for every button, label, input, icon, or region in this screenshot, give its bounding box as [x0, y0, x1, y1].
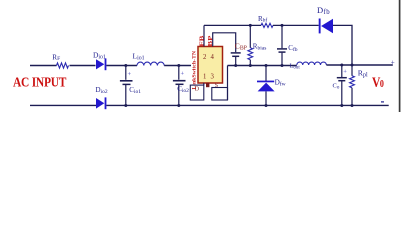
node junction feedback Rpl — [351, 64, 354, 67]
svg-text:Lout: Lout — [290, 63, 301, 71]
svg-text:Cio2: Cio2 — [177, 85, 189, 94]
node junction Cio1 bottom — [124, 104, 127, 107]
svg-text:+: + — [181, 71, 185, 78]
svg-text:D: D — [195, 87, 200, 93]
wire BP pin loop — [213, 33, 236, 52]
svg-text:CBP: CBP — [235, 42, 247, 52]
wire bottom input rail — [30, 104, 96, 106]
diode Dio1 — [96, 58, 106, 70]
svg-text:+: + — [343, 69, 347, 76]
wire top rail Dfb to output corner — [333, 25, 352, 65]
capacitor CBP — [231, 53, 241, 66]
node output minus terminal — [381, 101, 384, 103]
diode Dfw — [257, 66, 275, 106]
inductor Lout — [297, 62, 327, 65]
svg-text:Rbias: Rbias — [253, 43, 267, 52]
node junction Cfb top — [281, 24, 284, 27]
node junction Cio2 bottom — [177, 104, 180, 107]
resistor Rpl — [350, 65, 355, 106]
node junction Dfw top — [265, 64, 268, 67]
wire top rail Rbf to Dfb — [273, 24, 319, 26]
diode Dio2 — [96, 97, 106, 109]
capacitor Cio2 — [173, 66, 186, 106]
svg-text:Cio1: Cio1 — [129, 86, 141, 95]
svg-text:+: + — [391, 58, 395, 66]
wire top rail RF to Dio1 — [70, 65, 96, 67]
resistor Rbias — [248, 25, 253, 65]
svg-text:2: 2 — [203, 54, 207, 61]
svg-text:Rbf: Rbf — [258, 15, 267, 24]
wire switch node rail — [228, 65, 297, 67]
svg-text:Lio1: Lio1 — [133, 52, 145, 62]
svg-text:4: 4 — [211, 54, 215, 61]
svg-text:Cfb: Cfb — [288, 44, 298, 53]
wire top rail Dio1 to Lio1 — [106, 65, 137, 67]
svg-text:S: S — [215, 83, 218, 89]
wire top rail Lio1 to IC — [164, 65, 191, 67]
node junction Dfw bottom — [265, 104, 268, 107]
wire D pin stub — [203, 83, 205, 85]
svg-text:1: 1 — [203, 73, 206, 80]
wire switch rail riser to rect S — [227, 66, 229, 101]
resistor RF — [57, 63, 69, 68]
node junction Rbias top — [249, 24, 252, 27]
inductor Lio1 — [137, 62, 164, 65]
wire output rail — [326, 64, 392, 66]
svg-text:Dfb: Dfb — [317, 5, 330, 16]
svg-text:AC INPUT: AC INPUT — [13, 75, 67, 90]
capacitor Cfb — [277, 25, 287, 65]
svg-text:BP: BP — [208, 35, 214, 46]
svg-text:Dio1: Dio1 — [93, 51, 106, 61]
wire right page border — [399, 0, 401, 112]
node junction Rpl bottom — [351, 104, 354, 107]
svg-text:Dio2: Dio2 — [96, 86, 108, 95]
svg-text:RF: RF — [52, 54, 60, 62]
svg-text:V0: V0 — [372, 74, 384, 91]
svg-text:+: + — [128, 71, 132, 78]
node junction Cio1 top — [124, 64, 127, 67]
wire bottom rail full — [106, 104, 388, 106]
wire top input rail left — [30, 65, 57, 67]
op-amp U1 LinkSwitch-TN IC body — [198, 47, 223, 84]
capacitor Co — [337, 65, 348, 106]
node junction Cfb bottom — [281, 64, 284, 67]
capacitor Cio1 — [120, 66, 133, 106]
svg-text:Rpl: Rpl — [358, 68, 368, 78]
svg-text:Dfw: Dfw — [275, 79, 286, 88]
label LinkSwitch-TN — [192, 51, 198, 90]
IC center tab stub — [206, 83, 209, 87]
node junction Co bottom — [340, 104, 343, 107]
node junction Co top — [340, 64, 343, 67]
node junction Cio2 top — [177, 64, 180, 67]
label AC INPUT — [13, 75, 67, 90]
svg-text:3: 3 — [211, 73, 215, 80]
pin S lead rectangle — [212, 88, 228, 101]
resistor Rbf — [261, 23, 273, 27]
diode Dfb — [319, 19, 333, 34]
wire top feedback rail — [204, 24, 261, 26]
node junction Rbias bottom — [249, 64, 252, 67]
svg-text:LinkSwitch-TN: LinkSwitch-TN — [192, 51, 198, 90]
wire FB pin riser — [203, 25, 205, 46]
node junction CBP bottom — [234, 64, 237, 67]
label V0 output — [372, 74, 384, 91]
svg-text:FB: FB — [200, 36, 206, 47]
svg-text:Co: Co — [333, 83, 340, 91]
pin D lead rectangle — [190, 85, 204, 100]
